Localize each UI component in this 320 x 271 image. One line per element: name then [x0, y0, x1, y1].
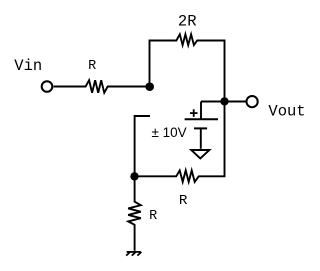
svg-text:R: R: [179, 193, 188, 209]
svg-text:Vout: Vout: [268, 102, 305, 120]
svg-text:± 10V: ± 10V: [152, 125, 187, 140]
svg-text:R: R: [149, 209, 157, 224]
svg-text:R: R: [88, 59, 96, 74]
svg-text:2R: 2R: [178, 13, 197, 31]
svg-text:Vin: Vin: [14, 57, 42, 75]
